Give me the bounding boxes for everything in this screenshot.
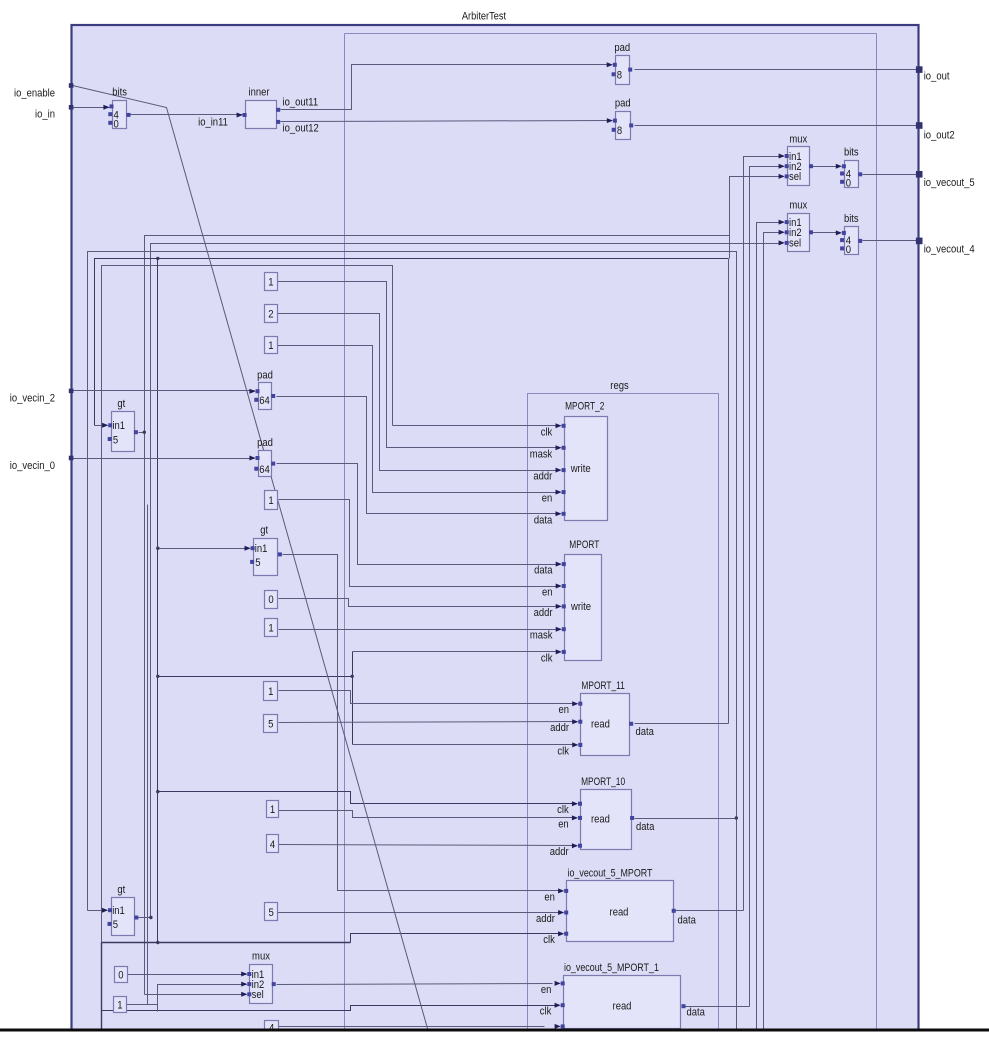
wire const 5 to MPORT_11 addr xyxy=(279,722,574,723)
svg-text:pad: pad xyxy=(257,369,273,381)
pad1 pin 8 xyxy=(612,72,616,76)
gt comparator gt1 xyxy=(112,412,135,452)
MPORT mask pin xyxy=(562,627,566,631)
wire const3 to MPORT_2 en xyxy=(278,346,557,493)
net gt1out bus: left corner x144 / y235.8 / right corner down xyxy=(145,236,730,995)
wire const2 to MPORT_2 addr xyxy=(278,314,557,471)
svg-text:0: 0 xyxy=(118,969,123,981)
gt3 pin 5 xyxy=(108,922,112,926)
pad2 pin 8 xyxy=(612,128,616,132)
svg-text:read: read xyxy=(610,907,629,919)
svg-text:mask: mask xyxy=(530,630,553,642)
mux3 in2 pin xyxy=(247,982,251,986)
port io_vecin_0 xyxy=(69,456,74,461)
bits2 output pin xyxy=(858,172,862,176)
MPORT_10 data pin xyxy=(630,816,634,820)
MPORT_10 addr pin xyxy=(578,844,582,848)
svg-text:io_vecout_4: io_vecout_4 xyxy=(924,244,975,256)
mux2 output pin xyxy=(809,230,813,234)
svg-text:clk: clk xyxy=(541,426,553,438)
wire mux1 out to bits2 xyxy=(813,166,841,168)
inner boundary right edge xyxy=(876,34,878,1029)
svg-text:gt: gt xyxy=(117,398,125,410)
svg-text:en: en xyxy=(542,587,553,599)
pad64_2 pin 64 xyxy=(254,467,258,471)
svg-text:0: 0 xyxy=(114,118,119,130)
svg-text:data: data xyxy=(534,514,553,526)
inner boundary top edge xyxy=(345,33,877,35)
bits3 pin 0 xyxy=(840,246,844,250)
svg-text:io_out2: io_out2 xyxy=(924,130,955,142)
svg-text:5: 5 xyxy=(113,919,118,931)
wire mux1 in1 feeder x743.3 xyxy=(744,157,784,911)
net y258 bus: x94.5 down to gt1 in1 / dark line right corner x728.1 xyxy=(95,259,729,426)
inner input pin xyxy=(243,113,247,117)
svg-text:addr: addr xyxy=(550,846,569,858)
bottom black separator line xyxy=(0,1029,989,1032)
wire io_out12 inner to pad2 xyxy=(281,121,612,122)
wire gt2 out to io_vecout_5_MPORT en xyxy=(283,555,561,891)
io_vecout_5_MPORT_1 addr pin xyxy=(561,1024,565,1028)
wire io_in11 bits1 to inner xyxy=(131,114,245,116)
pad1 input pin xyxy=(613,63,617,67)
io_vecout_5_MPORT_1 data pin xyxy=(682,1004,686,1008)
svg-text:1: 1 xyxy=(268,495,273,507)
mux2 in1 pin xyxy=(785,220,789,224)
MPORT_2 data pin xyxy=(562,512,566,516)
bits3 pin 4 xyxy=(840,238,844,242)
svg-text:bits: bits xyxy=(844,147,859,159)
svg-text:mux: mux xyxy=(789,200,807,212)
gt2 output pin xyxy=(278,552,282,556)
wire into gt3 in1 xyxy=(88,910,107,912)
svg-text:data: data xyxy=(534,565,553,577)
gt1 pin 5 xyxy=(108,437,112,441)
clock branch y791.6 to MPORT_10 clk xyxy=(158,792,573,804)
constant 1 (to en) xyxy=(265,337,278,354)
gt comparator gt3 xyxy=(112,898,135,936)
wire gt3 out stub xyxy=(139,917,151,919)
wire gt1 out stub xyxy=(139,432,145,434)
memory write port MPORT xyxy=(565,555,602,661)
svg-text:read: read xyxy=(591,719,610,731)
wire const 4 bottom xyxy=(279,1026,545,1028)
io_vecout_5_MPORT_1 clk pin xyxy=(561,1003,565,1007)
pad2 output pin xyxy=(629,123,633,127)
net y265 bus: x101.2 down / right corner x392.5 down to MPORT_2 clk xyxy=(102,266,393,943)
inner module block xyxy=(246,101,277,129)
port io_enable xyxy=(69,83,74,88)
svg-text:pad: pad xyxy=(615,98,631,110)
svg-text:in1: in1 xyxy=(112,420,125,432)
MPORT_11 clk pin xyxy=(578,743,582,747)
wire pad2 to io_out2 port xyxy=(635,125,917,127)
svg-text:8: 8 xyxy=(617,125,622,137)
constant 0 (to mux3 in1) xyxy=(115,967,128,983)
svg-text:5: 5 xyxy=(113,434,118,446)
constant 5 (to MPORT_11 addr) xyxy=(264,715,278,733)
pad64_1 input pin xyxy=(256,389,260,393)
bits3 input pin xyxy=(842,231,846,235)
bits extract block bits2 xyxy=(845,161,859,188)
memory read port MPORT_10 xyxy=(581,790,632,850)
wire mux2 in2 feeder x763.1 xyxy=(764,233,784,1029)
port io_vecin_2 xyxy=(69,389,74,394)
junction gt3 out xyxy=(149,916,152,919)
MPORT clk pin xyxy=(562,650,566,654)
wire io_vecin_2 to pad64_1 xyxy=(73,390,255,392)
wire const 0 to mux3 in1 xyxy=(128,974,247,976)
bits extract block bits3 xyxy=(845,227,859,255)
clock junction at y258 xyxy=(156,257,159,260)
clock bottom branch y1010 into io_vecout_5_MPORT_1 clk xyxy=(102,1006,557,1011)
svg-text:5: 5 xyxy=(255,557,260,569)
wire pad1 to io_out port xyxy=(635,69,917,71)
junction gt2 in1 tap xyxy=(156,547,159,550)
net y251 bus: x87.8 down to gt3 in1 / right corner x736.3 down to bottom xyxy=(88,252,737,1029)
mux block mux2 xyxy=(788,214,810,252)
svg-text:mux: mux xyxy=(252,951,270,963)
io_enable diagonal wire xyxy=(73,86,428,1029)
mux3 in1 pin xyxy=(247,972,251,976)
svg-text:8: 8 xyxy=(617,70,622,82)
svg-text:io_enable: io_enable xyxy=(14,88,55,100)
constant 4 (bottom, clipped) xyxy=(265,1021,279,1031)
regs memory box xyxy=(528,394,719,1030)
svg-text:MPORT_2: MPORT_2 xyxy=(565,401,604,413)
net gt3out bus: x150.9 up / y243.5 across to mux2 sel xyxy=(151,244,780,918)
svg-text:clk: clk xyxy=(557,745,569,757)
wire MPORT_11 data out xyxy=(635,723,729,725)
MPORT_10 clk pin xyxy=(578,802,582,806)
svg-text:1: 1 xyxy=(117,1000,122,1012)
junction gt1 out xyxy=(143,431,146,434)
constant 0 (to MPORT addr) xyxy=(265,591,278,609)
svg-text:1: 1 xyxy=(268,623,273,635)
bits1 output pin xyxy=(127,113,131,117)
mux1 in2 pin xyxy=(785,164,789,168)
svg-text:read: read xyxy=(591,814,610,826)
MPORT_2 clk pin xyxy=(562,424,566,428)
svg-text:en: en xyxy=(542,493,553,505)
port io_in xyxy=(69,105,74,110)
clock stub into MPORT write clk xyxy=(353,651,557,653)
MPORT data pin xyxy=(562,562,566,566)
pad2 input pin xyxy=(613,119,617,123)
wire MPORT_10 data out xyxy=(635,818,737,820)
clock bottom horizontal y942.5 xyxy=(102,942,351,944)
MPORT_2 en pin xyxy=(562,490,566,494)
memory read port MPORT_11 xyxy=(581,694,630,756)
wire bits2 out to io_vecout_5 port xyxy=(863,174,917,176)
wire into gt2 in1 xyxy=(158,548,250,550)
svg-text:MPORT: MPORT xyxy=(569,539,599,551)
bits3 output pin xyxy=(858,239,862,243)
svg-text:mux: mux xyxy=(789,133,807,145)
gt1 in1 pin xyxy=(108,423,112,427)
wire const 1 (y499) to MPORT en xyxy=(279,500,558,587)
svg-text:0: 0 xyxy=(846,244,851,256)
mux1 in1 pin xyxy=(785,154,789,158)
MPORT_11 data pin xyxy=(629,722,633,726)
inner output io_out12 pin xyxy=(276,120,280,124)
MPORT_10 en pin xyxy=(578,816,582,820)
io_vecout_5_MPORT addr pin xyxy=(564,911,568,915)
constant 1 (to MPORT mask) xyxy=(265,619,278,637)
pad64_2 input pin xyxy=(256,456,260,460)
wire io_vecout_5_MPORT data out xyxy=(676,910,744,912)
bits1 pin 4 xyxy=(108,112,112,116)
wire mux2 out to bits3 xyxy=(813,232,841,234)
pad64_2 output pin xyxy=(271,462,275,466)
wire const1 to MPORT_2 mask xyxy=(278,282,557,448)
svg-text:1: 1 xyxy=(268,686,273,698)
mux1 output pin xyxy=(809,164,813,168)
wire mux2 in1 feeder x756.4 xyxy=(757,223,784,1029)
svg-text:in1: in1 xyxy=(255,543,268,555)
svg-text:inner: inner xyxy=(249,87,270,99)
svg-text:64: 64 xyxy=(259,464,270,476)
svg-text:bits: bits xyxy=(112,87,127,99)
wire const 1 to MPORT_10 en xyxy=(279,811,574,818)
svg-text:gt: gt xyxy=(260,525,268,537)
pad block pad64_1 xyxy=(259,383,272,410)
io_vecout_5_MPORT_1 en pin xyxy=(561,981,565,985)
wire io_vecin_0 to pad64_2 xyxy=(73,458,255,460)
memory read port io_vecout_5_MPORT xyxy=(567,881,674,942)
svg-text:4: 4 xyxy=(270,839,275,851)
svg-text:1: 1 xyxy=(268,277,273,289)
pad64_1 output pin xyxy=(271,394,275,398)
clock spine left vertical x157.8 xyxy=(157,259,159,943)
svg-text:mask: mask xyxy=(530,448,553,460)
io_vecout_5_MPORT clk pin xyxy=(564,932,568,936)
svg-text:io_out11: io_out11 xyxy=(283,97,319,109)
gt3 in1 pin xyxy=(108,908,112,912)
svg-text:in1: in1 xyxy=(112,905,125,917)
bits extract block bits1 xyxy=(113,101,127,129)
svg-text:io_in: io_in xyxy=(35,109,55,121)
wire const 0 to MPORT addr xyxy=(279,599,558,607)
clock jog into io_vecout_5_MPORT clk xyxy=(351,934,560,943)
svg-text:64: 64 xyxy=(259,395,270,407)
constant 1 (to mux3 in2) xyxy=(114,997,127,1013)
svg-text:io_vecout_5_MPORT: io_vecout_5_MPORT xyxy=(568,867,653,879)
inner boundary left edge xyxy=(344,34,346,1029)
svg-text:write: write xyxy=(570,601,591,613)
mux3 output pin xyxy=(272,982,276,986)
constant 1 (to MPORT_11 en) xyxy=(264,682,278,701)
gt1 output pin xyxy=(134,430,138,434)
svg-text:addr: addr xyxy=(536,913,555,925)
io_vecout_5_MPORT en pin xyxy=(564,889,568,893)
pad64_1 pin 64 xyxy=(254,398,258,402)
mux block mux3 xyxy=(250,965,273,1004)
svg-text:io_in11: io_in11 xyxy=(198,117,228,129)
svg-text:addr: addr xyxy=(533,471,552,483)
svg-text:0: 0 xyxy=(846,177,851,189)
clock junction y942 xyxy=(156,941,159,944)
gt comparator gt2 xyxy=(254,539,278,576)
svg-text:addr: addr xyxy=(550,722,569,734)
svg-text:io_vecout_5_MPORT_1: io_vecout_5_MPORT_1 xyxy=(564,962,659,974)
svg-text:write: write xyxy=(570,463,591,475)
svg-text:MPORT_10: MPORT_10 xyxy=(581,776,625,788)
gt3 output pin xyxy=(134,916,138,920)
clock stub into MPORT_11 clk xyxy=(353,744,573,746)
constant 2 (to addr) xyxy=(265,305,278,323)
wire io_in to bits1 xyxy=(73,107,110,109)
pad block pad64_2 xyxy=(259,451,272,477)
wire mux3 in2 riser xyxy=(158,985,247,1012)
bits2 pin 0 xyxy=(840,180,844,184)
wire pad64_1 to MPORT_2 data xyxy=(277,397,557,514)
pad block pad2 xyxy=(616,112,631,140)
svg-text:5: 5 xyxy=(268,719,273,731)
wire vertical x147 channel xyxy=(147,505,149,1005)
svg-text:bits: bits xyxy=(844,213,859,225)
bits1 input pin xyxy=(110,104,114,108)
svg-text:data: data xyxy=(636,821,655,833)
wire const 1 to mux3 in2 xyxy=(127,1004,158,1006)
port io_out2 xyxy=(916,122,923,129)
svg-text:sel: sel xyxy=(789,171,801,183)
svg-text:en: en xyxy=(558,818,569,830)
clock junction y676 xyxy=(156,675,159,678)
svg-text:io_out12: io_out12 xyxy=(283,123,319,135)
wire MPORT_2 clk feeder xyxy=(393,425,557,427)
svg-text:regs: regs xyxy=(610,380,629,392)
MPORT_11 en pin xyxy=(578,702,582,706)
mux3 sel pin xyxy=(247,992,251,996)
MPORT_2 addr pin xyxy=(562,468,566,472)
svg-text:data: data xyxy=(687,1007,706,1019)
constant 1 (to MPORT_10 en) xyxy=(267,801,279,818)
svg-text:read: read xyxy=(613,1001,632,1013)
svg-text:io_out: io_out xyxy=(924,71,950,83)
io_vecout_5_MPORT data pin xyxy=(672,909,676,913)
wire const 1 to MPORT_11 en xyxy=(279,691,574,704)
wire const 4 to MPORT_10 addr xyxy=(279,845,574,846)
svg-text:clk: clk xyxy=(540,1006,552,1018)
MPORT_11 addr pin xyxy=(578,720,582,724)
svg-text:io_vecin_0: io_vecin_0 xyxy=(10,460,55,472)
gt2 pin 5 xyxy=(250,560,254,564)
mux2 in2 pin xyxy=(785,230,789,234)
mux1 sel pin xyxy=(785,174,789,178)
constant 1 (to MPORT en) xyxy=(265,491,278,510)
wire pad64_2 to MPORT data xyxy=(277,464,558,565)
svg-text:pad: pad xyxy=(257,437,273,449)
svg-text:data: data xyxy=(636,726,655,738)
svg-text:en: en xyxy=(541,984,552,996)
svg-text:ArbiterTest: ArbiterTest xyxy=(462,11,506,23)
svg-text:MPORT_11: MPORT_11 xyxy=(581,680,624,692)
pad1 output pin xyxy=(628,68,632,72)
wire mux1 sel feeder xyxy=(730,177,784,236)
mux block mux1 xyxy=(788,147,810,186)
svg-text:gt: gt xyxy=(117,884,125,896)
svg-text:io_vecin_2: io_vecin_2 xyxy=(10,393,55,405)
port io_vecout_4 xyxy=(916,238,923,245)
gt2 in1 pin xyxy=(251,546,255,550)
svg-text:clk: clk xyxy=(541,652,553,664)
svg-text:data: data xyxy=(678,914,697,926)
junction MPORT_10 data xyxy=(735,816,738,819)
wire io_out11 inner to pad1 xyxy=(281,65,612,110)
svg-text:2: 2 xyxy=(268,308,273,320)
clock junction x352 y676 xyxy=(351,675,354,678)
clock branch y676 to MPORT write/MPORT_11 clk spine xyxy=(158,676,353,678)
bits1 pin 0 xyxy=(108,121,112,125)
wire into gt1 in1 xyxy=(95,425,108,427)
svg-text:clk: clk xyxy=(543,934,555,946)
wire bits3 out to io_vecout_4 port xyxy=(863,240,917,242)
svg-text:io_vecout_5: io_vecout_5 xyxy=(924,177,975,189)
wire const 5 to io_vecout_5_MPORT addr xyxy=(278,912,560,914)
mux2 sel pin xyxy=(785,241,789,245)
MPORT en pin xyxy=(562,584,566,588)
svg-text:clk: clk xyxy=(557,804,569,816)
svg-text:5: 5 xyxy=(269,907,274,919)
memory read port io_vecout_5_MPORT_1 xyxy=(564,976,681,1029)
wire io_vecout_5_MPORT_1 data out xyxy=(686,1006,750,1008)
constant 5 (to io_vecout_5_MPORT addr) xyxy=(265,903,278,921)
wire mux3 out to io_vecout_5_MPORT_1 en xyxy=(277,984,553,985)
svg-text:1: 1 xyxy=(268,340,273,352)
svg-text:1: 1 xyxy=(270,804,275,816)
svg-text:0: 0 xyxy=(268,594,273,606)
clock spine right vertical x352 (651-745) xyxy=(352,652,354,745)
svg-text:pad: pad xyxy=(614,42,630,54)
clock drop to bottom edge x101 xyxy=(101,943,103,1029)
net y258 vertical drop to MPORT_11 data xyxy=(728,259,730,724)
inner output io_out11 pin xyxy=(276,108,280,112)
constant 4 (to MPORT_10 addr) xyxy=(267,835,279,853)
memory write port MPORT_2 xyxy=(565,417,608,521)
port io_vecout_5 xyxy=(916,171,923,178)
wire mux3 sel from x144.3 xyxy=(145,994,247,996)
svg-text:sel: sel xyxy=(789,238,801,250)
pad block pad1 xyxy=(616,56,630,85)
svg-text:en: en xyxy=(559,704,570,716)
port io_out xyxy=(916,66,923,73)
clock junction y791 xyxy=(156,790,159,793)
svg-text:sel: sel xyxy=(252,989,264,1001)
wire mux1 in2 feeder x749.3 xyxy=(750,167,784,1007)
svg-text:addr: addr xyxy=(534,607,553,619)
bits2 input pin xyxy=(842,164,846,168)
wire const 1 to MPORT mask xyxy=(279,629,558,631)
MPORT addr pin xyxy=(562,604,566,608)
MPORT_2 mask pin xyxy=(562,446,566,450)
constant 1 (to mask) xyxy=(265,273,278,291)
svg-text:en: en xyxy=(544,891,555,903)
bits2 pin 4 xyxy=(840,172,844,176)
